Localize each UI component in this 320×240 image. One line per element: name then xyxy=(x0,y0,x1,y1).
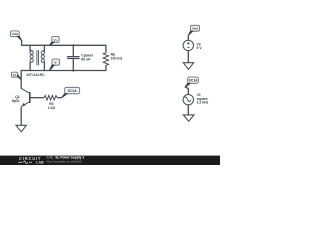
resistor Rp top lead xyxy=(105,45,107,52)
svg-text:V-: V- xyxy=(54,61,57,65)
svg-text:OC1A: OC1A xyxy=(68,89,78,93)
node flag OC1A (right) xyxy=(185,77,199,87)
node flag V- xyxy=(50,59,60,71)
transformer T1 left pin lead xyxy=(29,45,31,51)
node flag Vdd (left) xyxy=(10,31,21,41)
junction dot bottom xyxy=(72,69,74,71)
transformer T1 core xyxy=(37,50,39,65)
svg-text:2.2 kHz: 2.2 kHz xyxy=(197,101,209,105)
ground (V1) xyxy=(183,115,194,121)
svg-text:42TL013-RC: 42TL013-RC xyxy=(26,73,45,77)
node flag V+ xyxy=(49,36,59,45)
node flag Vs xyxy=(11,72,21,79)
svg-text:80 nF: 80 nF xyxy=(81,58,91,62)
ground (V3) xyxy=(183,63,193,70)
svg-text:Vdd: Vdd xyxy=(12,32,18,36)
transformer T1 phase dot left xyxy=(31,50,33,52)
transistor Q2 emitter wire to ground xyxy=(20,107,22,126)
capacitor C1 stem top xyxy=(72,45,74,56)
voltage source V3 plus xyxy=(187,42,190,45)
svg-text:1 kΩ: 1 kΩ xyxy=(48,106,56,110)
voltage source V1 circle xyxy=(183,95,193,105)
capacitor C1 plates xyxy=(67,57,80,59)
voltage source V3 minus xyxy=(187,47,190,49)
transistor Q2 emitter diagonal xyxy=(21,102,30,107)
svg-text:V+: V+ xyxy=(53,38,57,42)
svg-text:9 V: 9 V xyxy=(197,46,203,50)
wire Vdd flag to V3 xyxy=(187,35,189,40)
svg-text:100 kΩ: 100 kΩ xyxy=(111,57,123,61)
ground (Q2 emitter) xyxy=(16,125,26,132)
footer banner xyxy=(0,156,220,165)
capacitor C1 stem bottom xyxy=(72,59,74,71)
transformer T1 left pin bottom lead xyxy=(29,63,31,71)
transistor Q2 collector diagonal xyxy=(21,88,30,93)
transistor Q2 base bar xyxy=(29,92,31,103)
wire R3 to OC1A flag xyxy=(57,97,61,99)
voltage source V1 square wave glyph xyxy=(185,97,191,102)
node flag Vdd (right) xyxy=(188,25,199,35)
wire base to R3 xyxy=(30,97,44,99)
transformer T1 phase dot right xyxy=(43,50,45,52)
transformer T1 left winding xyxy=(30,51,33,62)
svg-text:LAB: LAB xyxy=(36,161,44,165)
svg-text:OC1A: OC1A xyxy=(189,79,199,83)
transformer T1 right winding xyxy=(41,51,44,62)
wire Vdd to top wire xyxy=(21,41,23,46)
wire OC1A flag to V1 xyxy=(186,87,189,95)
svg-text:Vs: Vs xyxy=(13,73,17,77)
resistor R3 zigzag xyxy=(44,95,57,100)
svg-text:tip31: tip31 xyxy=(12,99,20,103)
wire V3 to ground xyxy=(187,51,189,63)
wire top rail xyxy=(22,44,106,46)
svg-text:http://circuitlab.com/c6t4a9r: http://circuitlab.com/c6t4a9r xyxy=(47,160,82,164)
wire V1 to ground xyxy=(187,105,189,115)
wire bottom rail xyxy=(21,70,106,72)
svg-text:Vdd: Vdd xyxy=(192,27,198,31)
transistor Q2 emitter arrow xyxy=(22,103,26,106)
wire bottom-left down to collector xyxy=(20,71,22,89)
transformer T1 right pin bottom lead xyxy=(43,63,45,71)
resistor Rp bottom lead xyxy=(105,65,107,70)
transformer T1 right pin lead xyxy=(43,45,45,51)
voltage source V3 circle xyxy=(183,40,193,50)
node flag OC1A (left) xyxy=(62,87,80,97)
junction dot top xyxy=(72,44,74,46)
CircuitLab logo wave mark xyxy=(18,161,32,164)
resistor Rp zigzag xyxy=(103,53,108,66)
